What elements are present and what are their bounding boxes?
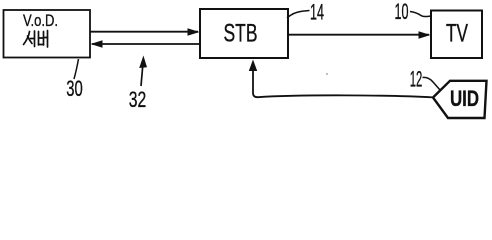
svg-text:10: 10 xyxy=(395,0,409,24)
label Korean seo-beo (server) drawn strokes xyxy=(24,31,48,48)
svg-text:32: 32 xyxy=(129,87,147,112)
svg-text:30: 30 xyxy=(66,76,83,101)
leader line 12 xyxy=(423,77,441,90)
svg-text:TV: TV xyxy=(446,19,468,47)
leader line 10 xyxy=(410,12,431,17)
block STB (14) xyxy=(200,9,288,58)
svg-text:12: 12 xyxy=(410,67,423,92)
tag UID (12) xyxy=(433,81,487,118)
svg-text:V.o.D.: V.o.D. xyxy=(23,11,58,30)
wire UID to STB xyxy=(253,66,433,97)
leader line 14 xyxy=(287,11,310,19)
arrow pointer 32 xyxy=(141,64,143,86)
scan speck xyxy=(326,73,328,75)
wire STB to TV xyxy=(288,34,429,36)
block TV (10) xyxy=(431,11,482,59)
svg-text:STB: STB xyxy=(224,20,258,48)
svg-text:UID: UID xyxy=(450,86,479,111)
wire downstream (VoD to STB) xyxy=(90,31,198,33)
svg-text:14: 14 xyxy=(310,0,324,25)
block V.o.D. server (30) xyxy=(4,10,91,58)
wire upstream (STB to VoD) xyxy=(92,43,200,45)
leader line 30 xyxy=(74,59,79,79)
